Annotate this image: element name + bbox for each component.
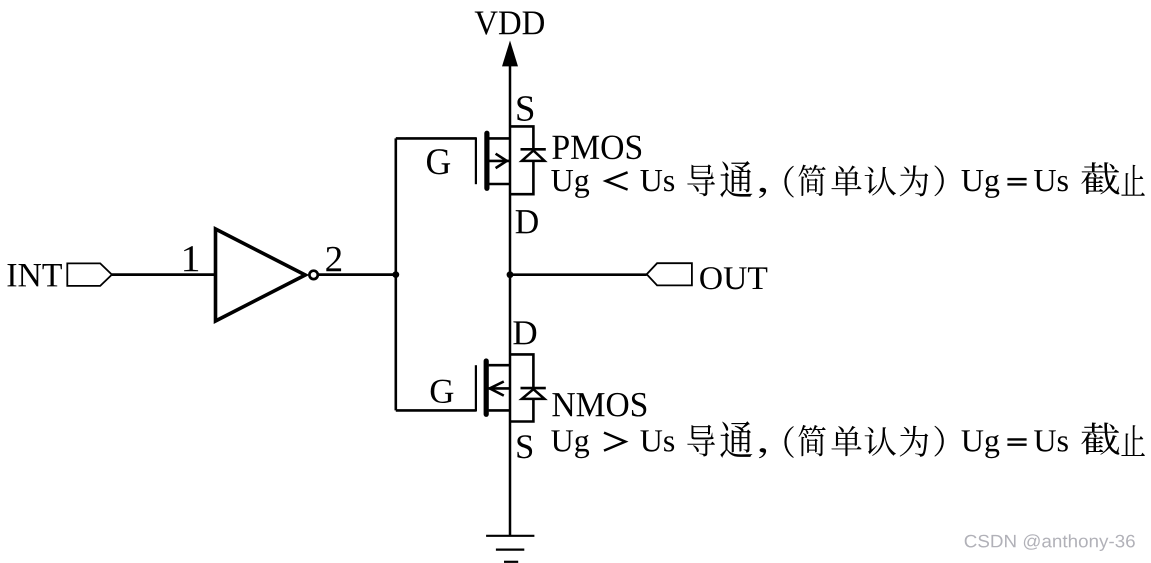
connector INT tag [67,263,112,286]
pin S label NMOS source [517,435,532,458]
junction dot drain node [507,271,514,278]
text NMOS cond Us [640,430,674,451]
text equals sign PMOS [1007,179,1026,184]
text PMOS 认 [865,167,896,196]
component PMOS label [552,135,641,159]
wire INT to inverter [112,273,216,276]
text PMOS 为 [900,165,929,196]
connector OUT tag [647,263,692,285]
text NMOS 截 [1081,422,1119,454]
wire PMOS gate horizontal [396,137,476,140]
text PMOS 通 [720,161,752,197]
text PMOS 导 [687,164,715,196]
text NMOS 简 [798,425,825,456]
diode PMOS body cathode bar [521,148,546,151]
watermark CSDN [965,534,1135,551]
power VDD arrow [502,41,518,67]
diode NMOS body triangle [522,389,545,399]
transistor Q1 PMOS source stub [489,137,510,140]
text NMOS open paren [784,426,793,458]
text NMOS cond Ug2 [962,430,1000,458]
wire main vertical VDD to ground [509,58,512,536]
text PMOS 截 [1081,162,1119,194]
component NMOS label [552,393,646,417]
pin G label PMOS gate [427,149,450,174]
text PMOS comma [759,188,766,198]
transistor Q2 NMOS channel bar [484,361,489,414]
connector OUT label [700,267,767,289]
text equals sign NMOS [1007,439,1026,444]
text NMOS 通 [720,421,752,457]
wire gate bus vertical [394,138,397,410]
transistor Q1 PMOS channel bar [484,133,489,188]
text PMOS 单 [831,166,861,196]
pin D label NMOS drain [513,321,536,344]
text NMOS 单 [831,426,861,456]
transistor Q1 PMOS gate plate [475,137,477,184]
gate U1 inversion bubble [309,271,317,279]
text PMOS cond Ug [551,170,589,198]
transistor Q1 PMOS drain stub [489,183,510,186]
text greater-than sign [604,433,625,451]
transistor Q1 PMOS bulk loop [510,126,533,194]
text NMOS cond Ug [551,430,589,458]
net VDD label [475,11,544,34]
diode PMOS body triangle [522,151,545,161]
diode NMOS body cathode bar [521,387,546,390]
pin G label NMOS gate [431,380,454,403]
connector INT label [7,264,61,286]
transistor Q2 NMOS bulk loop [510,354,533,421]
text less-than sign [606,172,628,189]
text NMOS 为 [900,426,929,457]
transistor Q2 NMOS gate plate [475,365,477,411]
label 2 inverter output [326,247,341,271]
text NMOS close paren [934,426,943,457]
text NMOS comma [759,448,766,458]
text PMOS cond Us2 [1034,170,1068,191]
transistor Q1 PMOS body stub [489,160,510,163]
text PMOS 简 [798,165,825,196]
label 1 inverter input [184,246,198,271]
text NMOS cond Us2 [1034,430,1068,451]
transistor Q2 NMOS source stub [489,409,510,412]
text PMOS open paren [784,166,793,198]
text NMOS 认 [865,427,896,456]
text NMOS 止 [1121,425,1145,456]
text PMOS close paren [934,165,943,196]
wire bubble to gate bus [318,273,396,276]
text PMOS cond Ug2 [962,170,1000,198]
gate U1 inverter triangle [216,229,306,321]
text PMOS 止 [1121,165,1145,196]
transistor Q2 NMOS drain stub [489,364,510,367]
transistor Q2 NMOS body arrow [490,382,504,396]
pin D label PMOS drain [516,210,538,233]
wire NMOS gate horizontal [396,409,476,412]
text NMOS 导 [687,425,715,457]
ground symbol [486,536,534,562]
text PMOS cond Us [640,170,674,191]
transistor Q2 NMOS body stub [489,387,510,390]
pin S label PMOS source [517,96,533,121]
junction dot gate bus [392,271,399,278]
wire drain node to OUT [510,273,647,276]
transistor Q1 PMOS body arrow [496,154,507,168]
